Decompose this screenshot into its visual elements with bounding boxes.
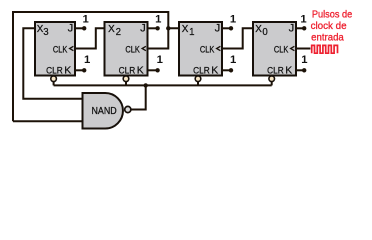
node: X2 J logic-1 terminal dot <box>155 26 159 30</box>
svg-text:CLR: CLR <box>267 66 284 76</box>
svg-text:K: K <box>285 64 292 76</box>
wire: clock input stub into X0 CLK <box>296 48 310 50</box>
wire: X2 J stub to logic-1 terminal <box>148 27 158 29</box>
wire: X3 J stub to logic-1 terminal <box>75 27 84 29</box>
svg-text:1: 1 <box>301 54 307 66</box>
node: X0 J logic-1 terminal dot <box>302 26 306 30</box>
svg-text:1: 1 <box>83 13 89 25</box>
svg-text:CLK: CLK <box>125 44 139 54</box>
clock dynamic-input wedge of X3 <box>70 46 74 50</box>
wire: X2 CLR bubble stub to rail <box>125 81 127 86</box>
svg-text:Pulsos de: Pulsos de <box>312 9 352 20</box>
svg-text:X: X <box>255 24 262 35</box>
wire: X3 CLR bubble stub to rail <box>53 81 55 86</box>
svg-text:entrada: entrada <box>311 33 344 44</box>
wire: X3 K stub to logic-1 terminal <box>75 69 84 71</box>
svg-text:J: J <box>215 22 221 34</box>
wire: NAND lower input segment <box>13 120 83 122</box>
node: junction of X1 Q wire with feedback net <box>166 26 170 30</box>
svg-text:1: 1 <box>230 54 236 66</box>
svg-text:J: J <box>68 22 74 34</box>
wire: X0 J stub to logic-1 terminal <box>296 27 304 29</box>
wire: common CLR rail under the flip-flops <box>54 84 272 86</box>
wire: NAND output up to CLR rail <box>132 85 146 109</box>
flip-flop X2 body <box>105 22 148 76</box>
clock dynamic-input wedge of X0 <box>291 46 295 50</box>
svg-text:1: 1 <box>84 54 90 66</box>
svg-text:CLK: CLK <box>53 44 68 54</box>
svg-text:NAND: NAND <box>92 106 117 117</box>
node: X2 K logic-1 terminal dot <box>155 68 159 72</box>
svg-text:1: 1 <box>155 13 161 25</box>
svg-text:X: X <box>108 24 115 35</box>
clock dynamic-input wedge of X1 <box>217 46 221 50</box>
svg-text:CLR: CLR <box>46 66 63 76</box>
wire: feedback net from X1 Q node up over the top to NAND, outer-left vertical <box>13 12 168 121</box>
flip-flop X3 body <box>35 22 75 76</box>
svg-text:1: 1 <box>300 13 306 25</box>
svg-text:2: 2 <box>116 27 121 38</box>
wire: X2 Q output to X3 CLK <box>75 28 105 48</box>
flip-flop X0 body <box>253 22 296 76</box>
CLR bubble of X0 <box>269 76 275 82</box>
svg-text:1: 1 <box>230 13 236 25</box>
node: NAND output junction on CLR rail <box>144 83 148 87</box>
svg-text:K: K <box>211 64 218 76</box>
node: X1 K logic-1 terminal dot <box>229 68 233 72</box>
CLR bubble of X1 <box>195 76 201 82</box>
node: X0 K logic-1 terminal dot <box>302 68 306 72</box>
svg-text:clock de: clock de <box>311 21 347 32</box>
wire: X0 CLR bubble stub to rail <box>271 81 273 86</box>
flip-flop X1 body <box>179 22 222 76</box>
wire: X0 K stub to logic-1 terminal <box>296 69 304 71</box>
svg-text:J: J <box>289 22 295 34</box>
svg-text:3: 3 <box>43 27 48 38</box>
svg-text:CLR: CLR <box>119 66 136 76</box>
clock pulse waveform symbol (red) <box>312 45 338 53</box>
svg-text:0: 0 <box>262 27 268 38</box>
wire: X2 K stub to logic-1 terminal <box>148 69 158 71</box>
CLR bubble of X2 <box>123 76 129 82</box>
svg-text:CLK: CLK <box>200 44 215 54</box>
svg-text:J: J <box>140 22 146 34</box>
svg-text:CLK: CLK <box>274 44 289 54</box>
wire: X0 Q output to X1 CLK <box>222 28 253 48</box>
node: X3 J logic-1 terminal dot <box>82 26 86 30</box>
svg-text:K: K <box>137 64 144 76</box>
svg-text:CLR: CLR <box>193 66 210 76</box>
svg-text:1: 1 <box>157 54 163 66</box>
svg-text:K: K <box>64 64 71 76</box>
svg-text:X: X <box>182 24 189 35</box>
wire: X3 Q output down the inner-left side to NAND upper input <box>23 28 82 98</box>
NAND gate U1 body <box>83 93 123 129</box>
wire: X1 K stub to logic-1 terminal <box>222 69 231 71</box>
node: X1 J logic-1 terminal dot <box>229 26 233 30</box>
wire: X1 J stub to logic-1 terminal <box>222 27 231 29</box>
clock dynamic-input wedge of X2 <box>142 46 146 50</box>
svg-text:1: 1 <box>189 27 194 38</box>
CLR bubble of X3 <box>51 76 57 82</box>
node: X3 K logic-1 terminal dot <box>82 68 86 72</box>
wire: X1 Q output to X2 CLK <box>148 28 180 48</box>
NAND output bubble <box>125 106 131 112</box>
wire: X1 CLR bubble stub to rail <box>197 81 199 86</box>
